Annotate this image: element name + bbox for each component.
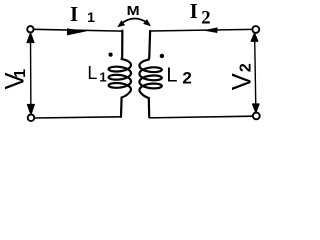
inductor L2 coil with leads (139, 31, 161, 117)
label V2 (rotated) (227, 73, 257, 90)
svg-text:1: 1 (87, 9, 95, 25)
wire: bottom left (L1 bottom to terminal) (35, 117, 121, 118)
svg-text:I: I (70, 2, 78, 26)
polarity dot L1 (109, 53, 113, 57)
label V1 (rotated) (0, 73, 30, 90)
mutual coupling arrow M (curved double-headed arc) (120, 19, 148, 25)
svg-text:M: M (127, 4, 140, 18)
terminal: right top (252, 26, 259, 33)
polarity dot L2 (160, 54, 164, 58)
voltage arrow V2 (double-headed, between right terminals) (255, 34, 256, 113)
terminal: left top (open circle) (27, 26, 33, 32)
svg-text:L: L (166, 65, 177, 87)
voltage arrow V1 (double-headed, between left terminals) (30, 35, 32, 114)
wire: top left (terminal to L1 top corner) (34, 29, 123, 31)
svg-text:1: 1 (12, 69, 29, 78)
terminal: left bottom (28, 115, 35, 122)
current arrow I1 (points right) (67, 28, 87, 35)
svg-text:2: 2 (238, 63, 255, 72)
svg-text:2: 2 (201, 7, 210, 28)
svg-text:L: L (87, 63, 97, 83)
svg-text:V: V (227, 73, 257, 90)
svg-text:1: 1 (99, 70, 106, 85)
terminal: right bottom (253, 113, 260, 120)
label M (127, 4, 140, 18)
wire: top right (L2 top corner to terminal) (150, 29, 252, 31)
svg-text:2: 2 (182, 69, 191, 88)
svg-text:I: I (190, 0, 198, 23)
current arrow I2 (points left) (203, 27, 218, 33)
inductor L1 coil with leads (109, 31, 131, 117)
wire: bottom right (L2 bottom to terminal) (149, 116, 253, 118)
